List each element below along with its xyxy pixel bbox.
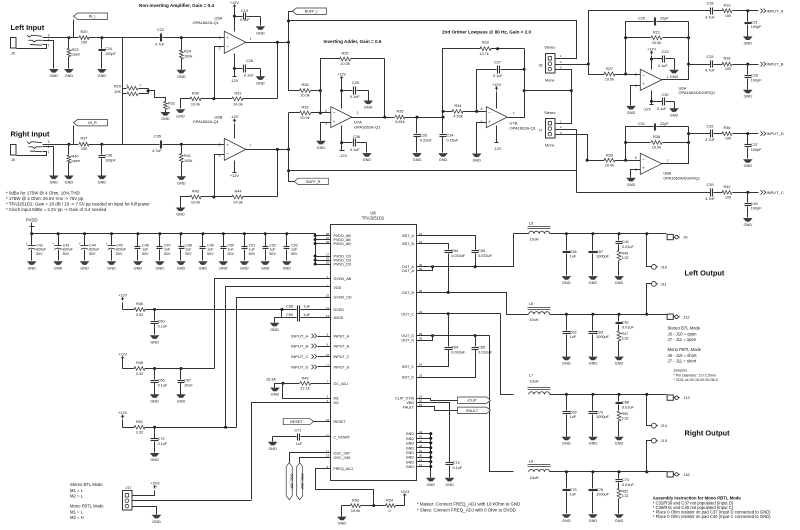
capacitor C57 1000pF [592,234,594,251]
wire OUT_D to L8 [417,335,476,337]
op-amp U7A OPA1662A-Q1 [331,107,352,128]
wire summing node [321,91,331,113]
svg-text:INPUT_B: INPUT_B [291,344,308,349]
svg-text:R32: R32 [168,102,175,106]
wire to C67 [155,368,181,370]
svg-text:R41: R41 [184,154,191,158]
gnd R47 [614,357,624,361]
gnd C60 [150,335,160,339]
svg-text:GND: GND [627,183,636,187]
svg-text:DVDD: DVDD [334,308,345,312]
power +12V U7B [496,92,498,109]
svg-text:0.01uF: 0.01uF [622,325,635,329]
wire to U6B -input [626,160,641,162]
junction R21 r [687,36,690,39]
svg-text:GND: GND [406,451,415,455]
svg-text:C65: C65 [478,346,485,350]
svg-text:GND: GND [270,328,279,332]
capacitor C66 0.1uF [154,369,156,380]
wire row4 to J16 [647,471,666,473]
capacitor C43 820uF electrolytic [58,234,60,246]
svg-text:GND: GND [156,266,165,270]
svg-text:0.1uF: 0.1uF [240,18,250,22]
svg-text:OUT_A: OUT_A [402,269,415,273]
capacitor C54 0.033uF [445,250,453,252]
svg-text:1uF: 1uF [570,255,577,259]
svg-text:GND: GND [406,432,415,436]
resistor R45 3.32 [617,250,621,260]
svg-text:3.32: 3.32 [136,313,143,317]
svg-text:50V: 50V [228,252,235,256]
svg-text:GND: GND [406,465,415,469]
resistor R54 0 [374,505,386,507]
capacitor C52 1uF [265,234,267,247]
phone jack symbol [27,142,42,144]
svg-text:J12: J12 [683,314,690,319]
net arrow INPUT_D [748,133,759,135]
svg-text:GND: GND [177,75,186,79]
wire FREQ_ADJ [316,469,374,506]
svg-text:C29: C29 [352,81,359,85]
svg-text:1000pF: 1000pF [596,255,610,259]
svg-text:C25: C25 [707,55,714,59]
wire J6 pin1 [555,58,577,60]
svg-text:GND: GND [50,74,59,78]
inductor L7 10uH [529,392,550,395]
wire +input [182,144,225,146]
wire U6B output to feedback [662,127,689,164]
svg-text:+12V: +12V [647,47,656,51]
svg-text:3: 3 [48,140,50,144]
wire FAULT [417,407,458,411]
feedback capacitor C20 22pF [626,22,654,75]
wire M1 from gnd node [283,384,331,399]
capacitor C22 4.7uF [123,37,160,39]
svg-text:OUT_C: OUT_C [402,312,415,316]
power top supply U5A [234,9,236,32]
junction [746,132,749,135]
svg-text:GND: GND [107,266,116,270]
svg-text:0.033uF: 0.033uF [451,254,466,258]
net flag FAULT [458,407,491,413]
capacitor C71 1uF [273,436,297,438]
svg-text:Mono PBTL Mode: Mono PBTL Mode [668,347,702,352]
svg-text:GND: GND [413,158,422,162]
svg-text:GND: GND [670,75,679,79]
svg-text:GND: GND [50,181,59,185]
junction C35 out [180,143,183,146]
svg-text:+: + [106,242,108,246]
svg-text:Jumpers: Jumpers [673,369,687,373]
svg-text:20.0k: 20.0k [300,116,309,120]
svg-text:C38: C38 [105,154,112,158]
resistor R26 100 [722,62,732,66]
svg-text:PVDD_AB: PVDD_AB [334,242,352,246]
resistor R40 open [68,145,70,155]
svg-text:IN_L: IN_L [89,15,97,19]
wire BST_A [417,236,476,250]
net flag BUFF_L [293,8,327,14]
wire feedback to output [277,149,279,197]
svg-text:GND: GND [317,146,326,150]
svg-text:+: + [52,242,54,246]
junction pvdd pin [314,263,317,266]
wire to U6A -input [626,74,641,76]
gnd C42 [27,261,37,265]
svg-text:+: + [642,165,645,170]
svg-text:−: − [226,151,229,156]
wire left node to C22 row [102,37,123,39]
svg-text:C44: C44 [89,243,96,247]
power +12V U6A with C23 [651,56,653,70]
svg-text:IN_R: IN_R [88,121,97,125]
resistor R35 6.81k [395,115,405,119]
svg-text:R45: R45 [622,252,629,256]
svg-text:GND: GND [152,520,161,524]
junction fb out [383,116,386,119]
svg-text:6: 6 [635,156,637,160]
svg-text:C49: C49 [207,243,214,247]
gnd R50 [614,437,624,441]
resistor R53 10.0k [342,505,351,507]
svg-text:0.1uF: 0.1uF [657,107,667,111]
wire BUFF_L long to J6 [289,21,577,59]
wire -input to gain network [215,47,225,99]
junction R53 R54 [372,504,375,507]
svg-text:100pF: 100pF [105,52,116,56]
resistor network R29 10K [123,88,127,90]
gnd C30 [669,108,679,112]
wire J6 pin2 to INPUT_A row [589,11,707,65]
gnd C75 [562,514,572,518]
capacitor C24 100pF [101,38,103,49]
gnd U6A +input [626,106,636,110]
junction C48 [180,232,183,235]
junction +in fb [475,110,478,113]
svg-text:50V: 50V [63,252,70,256]
svg-text:GND: GND [562,362,571,366]
svg-text:L7: L7 [529,374,533,378]
svg-text:+: + [26,242,28,246]
svg-text:GND: GND [363,158,372,162]
svg-text:R48: R48 [136,361,143,365]
svg-text:0: 0 [168,106,170,110]
connector J14 [652,423,657,428]
svg-text:M1 = L: M1 = L [70,488,84,493]
svg-text:R44: R44 [235,190,242,194]
junction C74 [618,470,621,473]
junction R39 in [586,159,589,162]
svg-text:7: 7 [667,159,669,163]
svg-text:+: + [226,142,229,147]
svg-text:1uF: 1uF [570,415,577,419]
svg-text:Left Output: Left Output [685,269,725,278]
svg-text:C59: C59 [286,313,293,317]
svg-text:J6 - J10 = short: J6 - J10 = short [668,353,698,358]
capacitor C42 820uF electrolytic [31,234,33,246]
svg-text:1uF: 1uF [142,248,149,252]
feedback resistor R38 10.0k [651,141,662,145]
junction C29 tap [340,89,343,92]
svg-text:GND: GND [27,266,36,270]
gnd C40 [743,218,753,222]
svg-text:10.0k: 10.0k [605,78,614,82]
junction pvdd pin [314,242,317,245]
svg-text:C27: C27 [494,61,501,65]
svg-text:open: open [72,159,80,163]
svg-text:Right Output: Right Output [685,429,731,438]
svg-text:50V: 50V [89,252,96,256]
svg-text:GND: GND [589,281,598,285]
wire DVDD row with C58 [155,309,297,311]
capacitor C44 820uF electrolytic [84,234,86,246]
wire U6A +input gnd [631,86,641,106]
svg-text:C62: C62 [570,330,577,334]
svg-text:24.3k: 24.3k [233,201,242,205]
junction C64 OUT_C [447,312,450,315]
junction bottom supply [233,67,236,70]
svg-text:INPUT_C: INPUT_C [767,190,784,195]
svg-text:OPA1662A-Q1: OPA1662A-Q1 [354,125,381,130]
svg-text:GND: GND [338,522,347,526]
svg-text:2nd Ordner Lowpass @ 80 Hz, Ga: 2nd Ordner Lowpass @ 80 Hz, Gain = 2.0 [442,30,532,35]
resistor R28 20.0k [300,89,311,93]
svg-text:OPA1662A/DGKRQ1: OPA1662A/DGKRQ1 [679,90,716,95]
svg-text:−: − [642,73,645,78]
connector J13 [667,395,673,400]
gnd C72 [150,453,160,457]
junction C57 [591,232,594,235]
svg-text:INPUT_B: INPUT_B [767,62,784,67]
svg-text:10uH: 10uH [529,318,538,322]
junction C33 [416,116,419,119]
svg-text:1: 1 [250,37,252,41]
gnd C53 [282,261,292,265]
gnd R53 [341,506,343,517]
svg-text:RESET: RESET [290,420,303,424]
svg-text:GND: GND [472,159,481,163]
svg-text:3.32: 3.32 [622,256,629,260]
svg-text:C28: C28 [751,74,758,78]
wire R29 to R32 [149,91,166,102]
svg-text:50V: 50V [142,252,149,256]
svg-text:0.1uF: 0.1uF [244,73,254,77]
svg-text:100: 100 [81,147,87,151]
capacitor C75 1uF [566,472,568,489]
svg-text:R27: R27 [606,67,613,71]
svg-text:24.3k: 24.3k [233,102,242,106]
svg-text:C31: C31 [638,122,645,126]
junction pvdd pin [314,259,317,262]
svg-text:PVDD_CD: PVDD_CD [334,263,352,267]
gnd R43 [176,208,186,212]
svg-text:1uF: 1uF [296,442,303,446]
junction R38 l [624,141,627,144]
svg-text:13.7k: 13.7k [479,52,488,56]
wire OUT_C drop [501,314,514,395]
svg-text:4.7uF: 4.7uF [705,197,715,201]
junction node lp1 [442,116,445,119]
svg-text:L6: L6 [529,302,533,306]
capacitor C34 0.15uF [442,118,444,134]
svg-text:OUT_D: OUT_D [402,339,415,343]
svg-text:50V: 50V [185,252,192,256]
svg-text:10.0k: 10.0k [605,164,614,168]
svg-text:R53: R53 [352,499,359,503]
svg-text:50V: 50V [291,252,298,256]
svg-text:J13: J13 [683,395,690,400]
gnd C51 [240,261,250,265]
svg-text:+12V: +12V [230,174,239,178]
junction C68 [618,393,621,396]
svg-text:R22: R22 [482,41,489,45]
capacitor C37 100pF [747,134,749,145]
svg-text:open: open [72,53,80,57]
svg-text:C74: C74 [622,478,629,482]
net flag CLIP [458,397,491,403]
wire right input node to divider [102,144,123,146]
svg-text:C76: C76 [596,488,603,492]
gnd C66 [150,394,160,398]
wire feedback to output [277,42,279,99]
gnd C58 C59 [270,323,280,327]
svg-text:* 3231-xx-00-15-00-00-08-0: * 3231-xx-00-15-00-00-08-0 [673,378,717,382]
svg-text:J10: J10 [661,264,668,269]
gnd C47 [155,261,165,265]
svg-text:+: + [642,82,645,87]
svg-text:J14: J14 [661,423,668,428]
junction after R [100,143,103,146]
gnd C46 [133,261,143,265]
gnd C21 [743,36,753,40]
svg-text:R43: R43 [192,190,199,194]
gnd C19 [256,26,266,30]
resistor R52 3.32 [617,488,621,498]
junction C62 [565,313,568,316]
svg-text:22: 22 [326,293,330,297]
svg-text:R36: R36 [724,126,731,130]
gnd C56 [562,276,572,280]
svg-text:C18: C18 [707,2,714,6]
capacitor C68 0.01uF [618,395,620,402]
wire J17 pin1 to +2V3 [133,491,155,496]
svg-text:L5: L5 [529,222,533,226]
svg-text:20.0k: 20.0k [300,94,309,98]
gnd U7B +input [472,154,482,158]
junction C22 out [180,36,183,39]
svg-text:GND: GND [744,164,753,168]
svg-text:GND: GND [406,456,415,460]
resistor R47 3.32 [617,331,621,341]
svg-text:GND: GND [150,458,159,462]
junction C51 [243,232,246,235]
svg-text:R46: R46 [136,302,143,306]
svg-text:BST_B: BST_B [402,242,414,246]
svg-text:INPUT_A: INPUT_A [767,8,784,13]
capacitor C39 4.7uF [710,189,712,197]
svg-text:10.0k: 10.0k [652,41,661,45]
svg-text:C60: C60 [158,320,165,324]
junction R48 [153,367,156,370]
gnd R45 [614,276,624,280]
svg-text:R30: R30 [192,91,199,95]
capacitor C64 0.033uF [448,314,450,347]
svg-text:Stereo BTL Mode: Stereo BTL Mode [668,326,701,331]
capacitor C32 4.7uF [710,130,712,138]
wire VBG to C73 [417,403,450,463]
capacitor C25 4.7uF [710,61,712,68]
svg-text:C69: C69 [570,410,577,414]
capacitor C45 820uF electrolytic [111,234,113,246]
power -12V U5B [234,161,236,173]
svg-text:VDD: VDD [334,286,342,290]
wire GND pin bundle [430,434,432,478]
wire C59 gnd tie [281,310,283,318]
svg-text:C23: C23 [662,50,669,54]
svg-text:/CLIP: /CLIP [467,399,477,403]
wire BST_B [417,244,449,250]
wire INPUT_C row from J7 [577,192,711,194]
wire +input [182,37,225,39]
gnd C67 [176,394,186,398]
svg-text:GND: GND [562,281,571,285]
junction C30 [650,100,653,103]
gnd C38 [97,176,107,180]
capacitor C50 1uF [223,234,225,247]
svg-text:R40: R40 [72,155,79,159]
wire CLIP_OTW [417,399,458,401]
junction R44 fb [276,148,279,151]
wire BUFF_R long right [289,170,577,172]
gnd U7A +input [316,141,326,145]
svg-text:1000pF: 1000pF [596,493,610,497]
svg-text:Mono: Mono [545,79,555,83]
resistor R31 24.3k [214,98,233,100]
wire INPUT_B row [689,64,711,66]
svg-text:M2 = L: M2 = L [70,494,84,499]
svg-text:3.32: 3.32 [622,337,629,341]
svg-text:C37: C37 [751,143,758,147]
svg-text:GND: GND [65,181,74,185]
wire node to R34 row [443,112,449,118]
capacitor C72 0.1uF [154,428,156,439]
gnd C57 [588,276,598,280]
svg-text:C48: C48 [185,243,192,247]
svg-text:C22: C22 [157,28,164,32]
net flag OSC_IOM [300,458,331,463]
svg-text:C66: C66 [158,379,165,383]
svg-text:1uF: 1uF [185,248,192,252]
junction J14 tap [645,393,648,396]
svg-text:GND: GND [589,362,598,366]
resistor R43 10.0k [181,197,187,208]
wire J14 [647,395,652,426]
svg-text:GND: GND [176,114,185,118]
svg-text:GND: GND [240,266,249,270]
svg-text:+12V: +12V [492,83,501,87]
svg-text:C75: C75 [570,488,577,492]
svg-text:50V: 50V [116,252,123,256]
svg-text:R23: R23 [72,48,79,52]
gnd C73 [445,478,455,482]
svg-text:0.1uF: 0.1uF [158,324,168,328]
capacitor C53 1uF [286,234,288,247]
svg-text:−: − [226,44,229,49]
svg-text:0.033uF: 0.033uF [478,351,493,355]
svg-text:C30: C30 [662,93,669,97]
capacitor C36 0.1uF [342,142,353,144]
wire OUT_D pair [417,336,433,341]
